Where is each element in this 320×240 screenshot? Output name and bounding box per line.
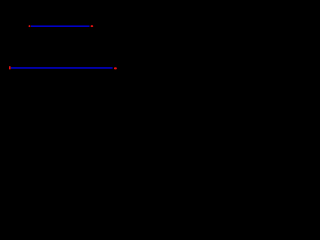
node: top-right red dot [91,25,94,27]
node: bottom-right red dot [114,67,117,69]
background [0,0,126,79]
node: top-left red dot [29,25,31,27]
wire: top blue line [31,25,90,27]
wire: bottom blue line [11,67,113,69]
node: bottom-left red tick [9,66,11,69]
